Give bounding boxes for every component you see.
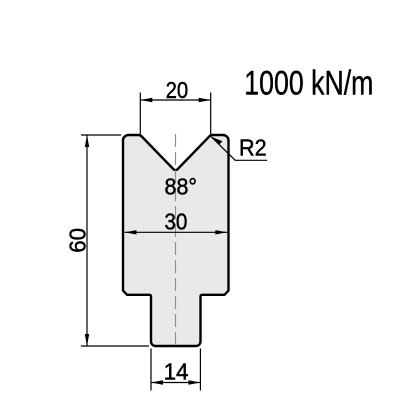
svg-text:88°: 88° bbox=[165, 173, 198, 199]
svg-text:20: 20 bbox=[166, 77, 189, 103]
svg-text:R2: R2 bbox=[239, 135, 267, 161]
svg-text:1000 kN/m: 1000 kN/m bbox=[244, 65, 373, 103]
svg-text:14: 14 bbox=[164, 358, 189, 384]
svg-text:60: 60 bbox=[65, 228, 91, 253]
svg-text:30: 30 bbox=[164, 208, 187, 234]
